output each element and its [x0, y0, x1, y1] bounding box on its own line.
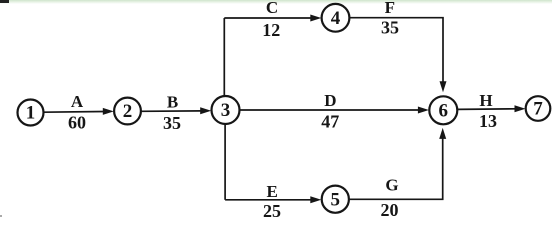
arrowhead A into node 2 — [103, 108, 114, 115]
wire 3-down — [224, 124, 226, 200]
wire E — [225, 199, 311, 201]
svg-text:25: 25 — [263, 201, 281, 217]
wire G — [349, 138, 443, 200]
node 2 — [114, 98, 141, 125]
arrowhead F into node 6 (down) — [440, 81, 447, 92]
svg-text:35: 35 — [381, 18, 399, 38]
wire C — [224, 17, 311, 19]
svg-text:13: 13 — [479, 111, 497, 131]
svg-text:D: D — [324, 91, 336, 110]
svg-text:47: 47 — [321, 112, 339, 132]
svg-text:7: 7 — [533, 99, 543, 120]
arrowhead G into node 6 (up) — [439, 128, 446, 139]
node 1 — [18, 100, 44, 126]
svg-text:B: B — [167, 92, 178, 111]
svg-text:1: 1 — [26, 103, 36, 124]
svg-text:F: F — [385, 0, 395, 17]
svg-text:C: C — [266, 0, 278, 17]
svg-text:2: 2 — [123, 101, 133, 122]
svg-text:G: G — [385, 176, 398, 195]
svg-text:12: 12 — [262, 20, 280, 40]
svg-text:E: E — [267, 182, 278, 201]
svg-text:3: 3 — [221, 100, 231, 121]
svg-text:6: 6 — [439, 101, 449, 122]
wire H — [458, 108, 517, 111]
svg-text:60: 60 — [68, 113, 86, 133]
node 6 — [429, 96, 457, 124]
svg-text:35: 35 — [163, 113, 181, 133]
svg-text:5: 5 — [331, 189, 341, 210]
scan speck bottom-left — [0, 215, 2, 217]
node 7 — [526, 96, 551, 121]
wire D — [240, 109, 419, 111]
svg-text:A: A — [71, 92, 84, 111]
arrowhead B into node 3 — [200, 107, 211, 114]
wire F — [350, 18, 443, 83]
wire B — [141, 110, 202, 112]
arrowhead E into node 5 — [310, 196, 321, 203]
wire A — [44, 111, 105, 114]
svg-text:H: H — [479, 91, 492, 110]
arrowhead C into node 4 — [310, 15, 321, 22]
top green scan strip — [0, 0, 552, 4]
node 5 — [322, 186, 349, 213]
arrowhead D into node 6 — [418, 107, 429, 114]
svg-text:20: 20 — [381, 200, 399, 217]
node 3 — [212, 96, 240, 124]
svg-text:4: 4 — [331, 8, 341, 29]
arrowhead H into node 7 — [515, 105, 526, 112]
node 4 — [322, 4, 350, 32]
scan speck top-left — [0, 0, 9, 3]
wire 3-up — [223, 18, 225, 96]
